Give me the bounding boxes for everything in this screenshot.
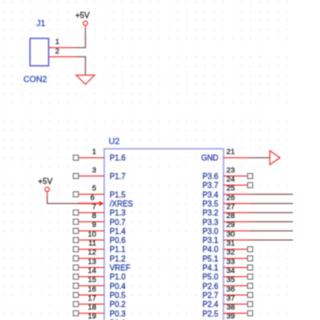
svg-text:34: 34 bbox=[226, 266, 235, 275]
svg-text:26: 26 bbox=[226, 193, 235, 202]
svg-text:P0.5: P0.5 bbox=[110, 291, 127, 300]
U2 pin 21 (GND) right bbox=[201, 147, 280, 165]
U2 pin 27 (P3.2) right bbox=[202, 202, 293, 218]
svg-text:19: 19 bbox=[88, 312, 97, 320]
svg-text:P3.6: P3.6 bbox=[202, 172, 218, 181]
svg-text:P0.6: P0.6 bbox=[110, 236, 126, 245]
svg-text:5: 5 bbox=[92, 184, 96, 193]
connector J1 body (CON2) bbox=[30, 38, 49, 65]
svg-text:P4.0: P4.0 bbox=[202, 245, 219, 254]
svg-text:P3.1: P3.1 bbox=[202, 236, 218, 245]
svg-text:29: 29 bbox=[226, 220, 235, 229]
svg-text:18: 18 bbox=[88, 303, 97, 312]
U2 pin 35 (P2.6) right bbox=[202, 275, 252, 291]
U2 pin 17 (P0.2) left bbox=[73, 293, 125, 309]
svg-text:23: 23 bbox=[226, 165, 235, 174]
svg-text:32: 32 bbox=[226, 248, 235, 257]
svg-text:12: 12 bbox=[88, 248, 97, 257]
+5V power symbol (left, for /XRES net) bbox=[38, 177, 53, 197]
U2 pin 16 (P0.5) left bbox=[73, 284, 126, 300]
+5V power symbol (top) bbox=[75, 11, 90, 29]
svg-text:8: 8 bbox=[92, 211, 96, 220]
J1 pin 2 bbox=[49, 46, 76, 56]
U2 pin 36 (P2.7) right bbox=[202, 284, 252, 300]
svg-text:P3.0: P3.0 bbox=[202, 227, 219, 236]
wire net J1 pin 2 to ground bbox=[76, 57, 86, 75]
svg-text:36: 36 bbox=[226, 284, 235, 293]
svg-text:P1.1: P1.1 bbox=[110, 245, 126, 254]
svg-text:P4.1: P4.1 bbox=[202, 264, 218, 273]
svg-text:+5V: +5V bbox=[75, 11, 90, 20]
U2 pin 18 (P0.3) left bbox=[73, 303, 125, 319]
U2 pin 30 (P3.1) right bbox=[202, 229, 293, 245]
U2 pin 10 (P0.6) left bbox=[73, 229, 125, 245]
svg-text:P1.5: P1.5 bbox=[110, 190, 127, 199]
U2 pin 23 (P3.6) right bbox=[202, 165, 252, 181]
svg-text:24: 24 bbox=[226, 174, 235, 183]
svg-text:P2.7: P2.7 bbox=[202, 291, 218, 300]
svg-text:11: 11 bbox=[88, 239, 96, 248]
U2 pin 24 (P3.7) right bbox=[202, 174, 252, 190]
svg-text:30: 30 bbox=[226, 229, 235, 238]
svg-text:P3.4: P3.4 bbox=[202, 190, 219, 199]
svg-text:33: 33 bbox=[226, 257, 235, 266]
svg-text:9: 9 bbox=[92, 220, 96, 229]
svg-text:P0.7: P0.7 bbox=[110, 218, 126, 227]
U2 pin 25 (P3.4) right bbox=[202, 184, 293, 200]
svg-text:21: 21 bbox=[226, 147, 235, 156]
U2 pin 15 (P0.4) left bbox=[73, 275, 126, 291]
svg-text:13: 13 bbox=[88, 257, 97, 266]
svg-text:38: 38 bbox=[226, 303, 235, 312]
svg-text:P1.2: P1.2 bbox=[110, 254, 126, 263]
U2 pin 38 (P2.5) right bbox=[202, 303, 252, 319]
J1 pin 1 bbox=[49, 37, 76, 47]
IC U2 body bbox=[104, 149, 223, 320]
svg-text:31: 31 bbox=[226, 239, 235, 248]
svg-text:P1.4: P1.4 bbox=[110, 227, 127, 236]
svg-text:P2.4: P2.4 bbox=[202, 300, 219, 309]
svg-text:14: 14 bbox=[88, 266, 97, 275]
U2 pin 5 (P1.5) left bbox=[73, 184, 126, 200]
U2 pin 8 (P0.7) left bbox=[73, 211, 125, 227]
svg-text:P2.6: P2.6 bbox=[202, 282, 218, 291]
svg-text:GND: GND bbox=[201, 154, 219, 163]
svg-text:10: 10 bbox=[88, 229, 97, 238]
wire net +5V to J1 pin 1 bbox=[76, 29, 86, 47]
U2 pin 37 (P2.4) right bbox=[202, 293, 252, 309]
U2 pin 14 (P1.0) left bbox=[73, 266, 126, 282]
U2 pin 12 (P1.2) left bbox=[73, 248, 125, 264]
svg-text:28: 28 bbox=[226, 211, 235, 220]
U2 pin 33 (P4.1) right bbox=[202, 257, 252, 273]
svg-text:P3.3: P3.3 bbox=[202, 218, 218, 227]
U2 pin 9 (P1.4) left bbox=[73, 220, 126, 236]
svg-text:P2.5: P2.5 bbox=[202, 309, 219, 318]
U2 pin 3 (P1.7) left bbox=[73, 165, 125, 181]
svg-text:2: 2 bbox=[55, 46, 59, 55]
svg-text:27: 27 bbox=[226, 202, 235, 211]
svg-text:P5.1: P5.1 bbox=[202, 254, 218, 263]
svg-text:3: 3 bbox=[92, 165, 96, 174]
U2 pin 13 (VREF) left bbox=[73, 257, 130, 273]
svg-text:7: 7 bbox=[92, 202, 96, 211]
U2 pin 6 (/XRES) left bbox=[77, 193, 133, 209]
svg-text:P3.5: P3.5 bbox=[202, 199, 219, 208]
svg-text:J1: J1 bbox=[36, 18, 45, 28]
U2 pin 11 (P1.1) left bbox=[73, 239, 125, 255]
svg-text:P1.7: P1.7 bbox=[110, 172, 126, 181]
U2 pin 39 (off-page) right bbox=[226, 312, 235, 320]
svg-text:25: 25 bbox=[226, 184, 235, 193]
svg-text:37: 37 bbox=[226, 293, 235, 302]
svg-text:P1.3: P1.3 bbox=[110, 209, 126, 218]
svg-text:P3.2: P3.2 bbox=[202, 209, 218, 218]
U2 pin 31 (P4.0) right bbox=[202, 239, 252, 255]
svg-text:16: 16 bbox=[88, 284, 97, 293]
svg-text:P3.7: P3.7 bbox=[202, 181, 218, 190]
svg-text:P1.6: P1.6 bbox=[110, 154, 126, 163]
svg-text:39: 39 bbox=[226, 312, 235, 320]
U2 pin 7 (P1.3) left bbox=[73, 202, 125, 218]
svg-text:17: 17 bbox=[88, 293, 97, 302]
U2 pin 32 (P5.1) right bbox=[202, 248, 252, 264]
svg-text:P0.2: P0.2 bbox=[110, 300, 126, 309]
svg-text:U2: U2 bbox=[109, 136, 120, 146]
U2 pin 26 (P3.5) right bbox=[202, 193, 293, 209]
ground symbol bbox=[76, 75, 94, 84]
U2 pin 1 (P1.6) left bbox=[73, 147, 125, 163]
svg-text:P5.0: P5.0 bbox=[202, 273, 219, 282]
U2 pin 29 (P3.0) right bbox=[202, 220, 293, 236]
svg-text:P0.3: P0.3 bbox=[110, 309, 126, 318]
svg-text:+5V: +5V bbox=[38, 177, 53, 186]
svg-text:1: 1 bbox=[92, 147, 96, 156]
U2 pin 19 (P0.1) left bbox=[88, 312, 126, 320]
svg-text:15: 15 bbox=[88, 275, 97, 284]
svg-text:1: 1 bbox=[55, 37, 59, 46]
svg-text:VREF: VREF bbox=[110, 264, 131, 273]
svg-text:P1.0: P1.0 bbox=[110, 273, 127, 282]
U2 pin 28 (P3.3) right bbox=[202, 211, 293, 227]
wire net +5V to /XRES pin bbox=[47, 197, 77, 204]
svg-text:CON2: CON2 bbox=[23, 74, 47, 84]
svg-text:6: 6 bbox=[90, 193, 94, 202]
U2 pin 34 (P5.0) right bbox=[202, 266, 252, 282]
svg-text:P0.4: P0.4 bbox=[110, 282, 127, 291]
svg-text:/XRES: /XRES bbox=[110, 199, 133, 208]
svg-text:35: 35 bbox=[226, 275, 235, 284]
